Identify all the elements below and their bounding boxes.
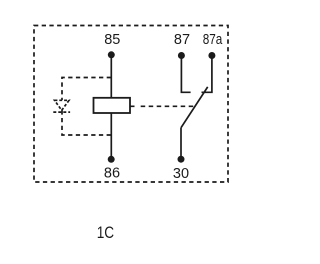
svg-text:86: 86 — [104, 166, 120, 182]
svg-text:1C: 1C — [97, 223, 114, 242]
wire: armature to pin 30 — [180, 128, 182, 158]
wire: pin 87 fixed contact — [181, 57, 190, 92]
svg-text:87a: 87a — [203, 32, 223, 48]
pin 87 terminal — [178, 52, 185, 59]
coil L1 — [94, 98, 131, 113]
svg-text:87: 87 — [174, 32, 190, 48]
svg-text:30: 30 — [173, 166, 189, 182]
pin 87a terminal — [208, 52, 215, 59]
pin 30 terminal — [178, 156, 185, 163]
wire: pin 87a fixed contact — [202, 57, 212, 92]
diode D1 (dashed triangle) — [55, 100, 70, 110]
pin 85 terminal — [108, 51, 115, 58]
wire: pin 85 to coil — [110, 56, 112, 99]
wire: coil to pin 86 — [110, 113, 112, 158]
relay case K1 (dashed outline) — [34, 26, 228, 183]
pin 86 terminal — [108, 156, 115, 163]
switch armature (movable contact) — [181, 87, 208, 128]
suppression diode enclosure (dashed box) — [62, 78, 111, 136]
diode D1 cathode bar — [53, 111, 70, 113]
actuation link: coil to armature (dashed) — [130, 105, 196, 107]
svg-text:85: 85 — [104, 32, 120, 48]
